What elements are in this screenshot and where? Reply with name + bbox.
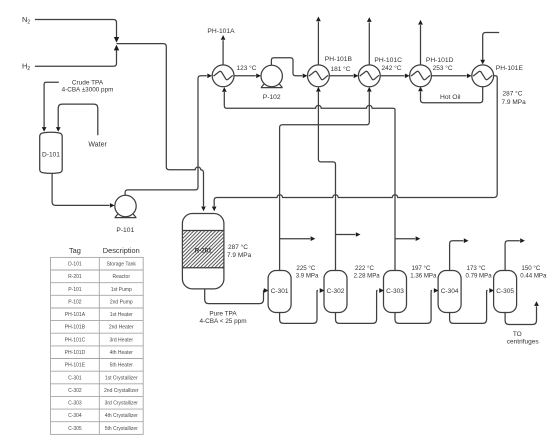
wire PH-101D vent [420, 25, 422, 65]
svg-text:197 °C: 197 °C [412, 265, 432, 272]
wire crude TPA to D-101 [44, 82, 59, 127]
wire R-201 to C-301 [205, 289, 265, 304]
svg-text:0.44 MPa: 0.44 MPa [520, 273, 547, 280]
arrow PH-101B vent up [316, 17, 321, 22]
svg-text:C-302: C-302 [327, 288, 345, 295]
svg-text:PH-101E: PH-101E [65, 363, 86, 369]
svg-text:R-201: R-201 [195, 247, 212, 254]
svg-text:C-304: C-304 [68, 413, 82, 419]
arrow into PH-101B bottom [316, 87, 321, 92]
svg-text:3.9 MPa: 3.9 MPa [296, 273, 319, 280]
arrow into PH-101D [405, 74, 410, 79]
vessel D-101 [40, 132, 63, 173]
svg-text:PH-101D: PH-101D [426, 57, 454, 64]
heater PH-101B [308, 65, 330, 87]
svg-text:PH-101D: PH-101D [65, 350, 86, 356]
svg-text:7.9 MPa: 7.9 MPa [227, 252, 252, 259]
arrow C-305 vent [520, 238, 525, 243]
svg-text:Pure TPA: Pure TPA [209, 310, 237, 317]
svg-text:287 °C: 287 °C [503, 90, 523, 98]
arrow into P-101 [110, 203, 115, 208]
wire C-305 to centrifuges [505, 306, 536, 324]
arrow into D-101 water [56, 127, 61, 132]
svg-text:Reactor: Reactor [112, 274, 130, 280]
svg-text:Storage Tank: Storage Tank [107, 262, 137, 268]
pump P-101 [115, 195, 137, 217]
svg-text:2.28 MPa: 2.28 MPa [354, 273, 381, 280]
heater PH-101D [410, 65, 432, 87]
svg-text:1.36 MPa: 1.36 MPa [410, 273, 437, 280]
arrow into C-305 [489, 288, 494, 293]
svg-text:C-303: C-303 [68, 401, 82, 407]
svg-text:PH-101B: PH-101B [65, 325, 86, 331]
arrow into R-201 hot feed [212, 207, 217, 212]
svg-text:R-201: R-201 [68, 274, 82, 280]
arrow C-301 vent [311, 236, 316, 241]
wire PH-101B vent [317, 22, 319, 65]
arrow into PH-101E [467, 74, 472, 79]
wire D-101 to P-101 [52, 174, 109, 206]
svg-text:181 °C: 181 °C [331, 65, 351, 73]
svg-text:Description: Description [103, 246, 140, 255]
junction mixing arrows [114, 37, 119, 43]
vessel C-305 [494, 271, 517, 313]
arrow into P-102 [256, 74, 261, 79]
wire C-301 vent [280, 238, 311, 240]
arrow into PH-101C bottom [367, 87, 372, 92]
arrow hot oil into PH-101D bottom [418, 87, 423, 92]
wire hot oil supply to PH-101E [483, 33, 500, 60]
svg-text:D-101: D-101 [68, 262, 82, 268]
arrow hot oil into PH-101E top [480, 60, 485, 65]
svg-text:1st Crystallizer: 1st Crystallizer [105, 375, 138, 381]
svg-text:5th Heater: 5th Heater [110, 363, 134, 369]
svg-text:Hot Oil: Hot Oil [440, 94, 461, 101]
vessel C-304 [438, 271, 461, 313]
arrow into C-301 [264, 288, 269, 293]
arrow PH-101A vent up [221, 35, 226, 40]
wire C-301 vapor to PH-101C [280, 92, 370, 271]
arrow into D-101 crude TPA [42, 127, 47, 132]
svg-text:TO: TO [513, 331, 522, 338]
svg-text:3rd Crystallizer: 3rd Crystallizer [105, 401, 139, 407]
svg-text:D-101: D-101 [42, 152, 60, 159]
svg-text:PH-101A: PH-101A [65, 312, 86, 318]
svg-text:123 °C: 123 °C [237, 64, 257, 72]
arrow C-303 vent [416, 236, 421, 241]
wire N2 line [35, 20, 117, 42]
wire PH-101D to PH-101E [431, 75, 466, 77]
svg-text:C-301: C-301 [271, 288, 289, 295]
svg-text:1st Heater: 1st Heater [110, 312, 133, 318]
svg-text:242 °C: 242 °C [382, 64, 402, 72]
svg-text:P-102: P-102 [68, 299, 82, 305]
svg-text:C-302: C-302 [68, 388, 82, 394]
wire 287C product to R-201 [214, 76, 497, 206]
wire mixed gas to R-201 [117, 44, 204, 207]
heater PH-101C [358, 65, 380, 87]
svg-text:4-CBA ±3000 ppm: 4-CBA ±3000 ppm [62, 87, 114, 94]
wire C-304 to C-305 [450, 291, 488, 324]
vessel C-301 [268, 271, 291, 313]
svg-text:4-CBA < 25 ppm: 4-CBA < 25 ppm [199, 318, 246, 325]
arrow to centrifuges [534, 301, 539, 306]
arrow into C-303 [379, 288, 384, 293]
arrow into PH-101B [303, 74, 308, 79]
heater PH-101A [212, 65, 234, 87]
svg-text:253 °C: 253 °C [433, 64, 453, 72]
wire PH-101A vent [222, 40, 224, 65]
svg-text:4th Heater: 4th Heater [110, 350, 134, 356]
svg-text:Crude TPA: Crude TPA [72, 80, 104, 87]
arrow into PH-101C [354, 74, 359, 79]
arrow C-302 vent [356, 232, 361, 237]
svg-text:225 °C: 225 °C [296, 265, 316, 272]
arrow into PH-101A bottom [222, 87, 227, 92]
svg-text:P-102: P-102 [263, 94, 281, 101]
wire hot oil PH-101E to PH-101D [421, 87, 483, 103]
svg-text:173 °C: 173 °C [467, 265, 487, 272]
wire PH-101C to PH-101D [380, 75, 404, 77]
wire C-302 vent [336, 234, 356, 236]
wire P-101 to PH-101A [125, 76, 207, 196]
wire C-303 to C-304 [395, 291, 432, 324]
arrow into C-302 [320, 288, 325, 293]
svg-text:PH-101E: PH-101E [496, 65, 524, 72]
svg-text:2nd Crystallizer: 2nd Crystallizer [104, 388, 139, 394]
svg-text:P-101: P-101 [116, 227, 134, 234]
svg-text:287 °C: 287 °C [228, 243, 248, 251]
wire C-303 vent [395, 238, 415, 240]
wire C-302 vapor to PH-101B [318, 92, 335, 271]
wire PH-101C vent [368, 22, 370, 65]
svg-text:C-304: C-304 [441, 288, 459, 295]
wire C-301 to C-302 [280, 291, 318, 324]
svg-text:PH-101C: PH-101C [65, 337, 86, 343]
reactor R-201 catalyst bed [182, 231, 224, 268]
svg-text:0.79 MPa: 0.79 MPa [466, 273, 493, 280]
wire C-303 vapor to PH-101A [224, 92, 395, 271]
svg-text:222 °C: 222 °C [355, 265, 375, 272]
svg-text:Tag: Tag [69, 246, 81, 255]
wire C-302 to C-303 [336, 291, 378, 324]
svg-text:C-303: C-303 [386, 288, 404, 295]
pump P-102 [261, 65, 283, 87]
svg-text:PH-101A: PH-101A [207, 28, 235, 35]
wire PH-101A to P-102 [234, 75, 256, 77]
svg-text:C-305: C-305 [68, 426, 82, 432]
svg-text:C-301: C-301 [68, 375, 82, 381]
svg-text:150 °C: 150 °C [521, 265, 541, 272]
arrow PH-101D vent up [418, 20, 423, 25]
vessel C-303 [384, 271, 407, 313]
svg-text:Water: Water [88, 141, 107, 148]
svg-text:PH-101B: PH-101B [325, 56, 353, 63]
arrow C-304 vent [464, 238, 469, 243]
vessel C-302 [324, 271, 347, 313]
wire water to D-101 [58, 104, 98, 135]
svg-text:PH-101C: PH-101C [374, 57, 402, 64]
arrow into C-304 [434, 288, 439, 293]
arrow into PH-101A [207, 74, 212, 79]
svg-text:P-101: P-101 [68, 287, 82, 293]
vessel R-201 [182, 214, 224, 289]
wire H2 line [35, 48, 117, 66]
heater PH-101E [472, 65, 494, 87]
svg-text:7.9 MPa: 7.9 MPa [502, 99, 527, 106]
svg-text:4th Crystallizer: 4th Crystallizer [105, 413, 138, 419]
arrow PH-101C vent up [367, 17, 372, 22]
wire P-102 to PH-101B [271, 58, 302, 76]
svg-text:1st Pump: 1st Pump [111, 287, 132, 293]
wire PH-101B to PH-101C [329, 75, 353, 77]
svg-text:centrifuges: centrifuges [507, 338, 540, 345]
wire C-304 vent [450, 241, 464, 271]
wire C-305 vent [505, 241, 520, 271]
svg-text:C-305: C-305 [496, 288, 514, 295]
svg-text:2nd Heater: 2nd Heater [109, 325, 134, 331]
svg-text:3rd Heater: 3rd Heater [109, 337, 133, 343]
svg-text:2nd Pump: 2nd Pump [110, 299, 133, 305]
svg-text:5th Crystallizer: 5th Crystallizer [105, 426, 138, 432]
arrow into R-201 gas inlet [201, 207, 206, 212]
